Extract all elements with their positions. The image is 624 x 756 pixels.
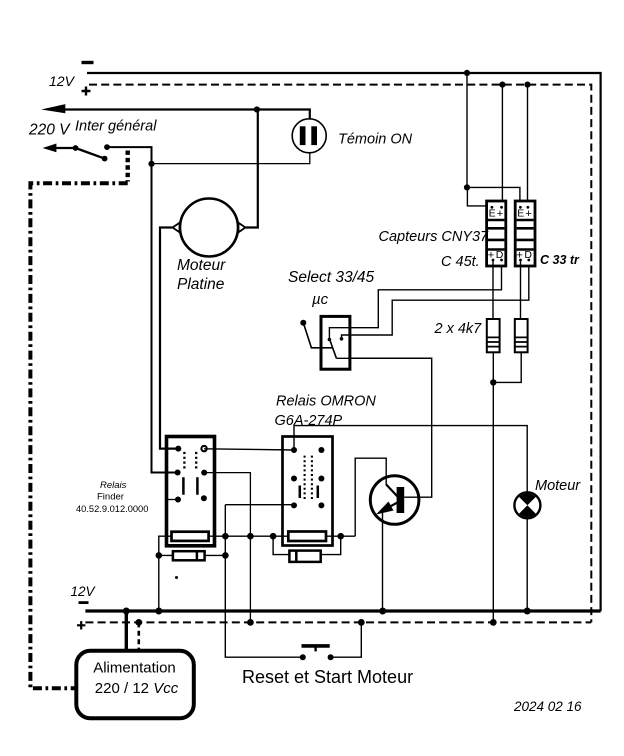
wire transistor emitter to minus bus	[382, 510, 384, 612]
node junction K1 terminal right	[222, 552, 229, 559]
sensor labels	[379, 229, 581, 270]
svg-text:Relais: Relais	[100, 480, 127, 491]
wire relay K2 terminal left lead	[273, 536, 289, 554]
svg-text:12V: 12V	[71, 584, 97, 599]
svg-text:C 45t.: C 45t.	[441, 254, 480, 270]
svg-text:Moteur: Moteur	[535, 478, 581, 494]
relay K2 pins	[291, 447, 324, 508]
sensor U1 CNY37	[487, 201, 506, 266]
wire switch output to relay K1	[107, 147, 178, 472]
svg-text:E: E	[489, 208, 496, 220]
relay K1 coil box	[172, 532, 209, 541]
wire supply plus dashed	[138, 622, 141, 650]
svg-text:Relais OMRON: Relais OMRON	[276, 394, 376, 410]
relay K2 OMRON label	[275, 394, 377, 430]
wire select pole to transistor base	[336, 357, 431, 359]
svg-text:12V: 12V	[49, 73, 76, 89]
wire transistor base to switch	[350, 358, 432, 497]
svg-text:C 33 tr: C 33 tr	[540, 253, 580, 267]
wire 12V minus bus top and right side	[87, 73, 601, 611]
transistor Q1	[370, 476, 419, 525]
wire lamp return thin	[152, 153, 310, 164]
svg-text:2024 02 16: 2024 02 16	[513, 699, 582, 714]
svg-text:40.52.9.012.0000: 40.52.9.012.0000	[76, 504, 148, 514]
lamp Temoin ON	[292, 119, 326, 153]
svg-text:Platine: Platine	[177, 276, 225, 293]
relay K1 label	[76, 480, 148, 514]
node junction plus bus button	[358, 619, 365, 626]
resistor R2	[515, 319, 528, 352]
wire plus to sensor1	[501, 85, 503, 208]
node junction resistors	[490, 379, 496, 385]
relay K1 contact bars	[183, 477, 197, 495]
wire button to plus bus	[331, 622, 362, 657]
wire button feed vertical	[225, 505, 302, 658]
wire relay K2 terminal right lead	[321, 536, 341, 554]
motor M1 label	[177, 257, 226, 293]
stray dot	[175, 576, 178, 579]
svg-text:Inter général: Inter général	[75, 119, 157, 135]
svg-text:E: E	[517, 208, 524, 220]
node junction plus bus K1	[247, 619, 254, 626]
svg-text:+: +	[525, 208, 531, 220]
svg-text:Select 33/45: Select 33/45	[288, 269, 375, 286]
power supply box	[76, 651, 194, 719]
wire relay K1 terminal leads	[159, 554, 226, 556]
node junction minus bus emitter	[379, 608, 386, 615]
button Reset	[300, 646, 334, 660]
svg-text:Capteurs CNY37: Capteurs CNY37	[379, 229, 490, 245]
wire plus to sensor2	[527, 85, 529, 208]
node junction K1 left	[156, 552, 163, 559]
svg-text:+: +	[497, 208, 503, 220]
node junction plus bus supply	[135, 619, 142, 626]
switch Select 33/45	[300, 316, 350, 369]
resistor R1	[487, 319, 500, 352]
wire relay K1 coil left lead	[159, 536, 172, 555]
wire motor feed vertical	[245, 110, 257, 228]
wire 12V plus bus top dashed and right side dashed	[89, 85, 591, 623]
svg-text:Alimentation: Alimentation	[93, 660, 176, 677]
svg-text:2 x 4k7: 2 x 4k7	[434, 321, 483, 337]
wire to sensor2 E	[467, 187, 520, 208]
node 12V bottom label	[71, 584, 97, 630]
node junction motor feed	[254, 106, 260, 112]
wire resistor R2 down join	[493, 352, 521, 382]
wire sensor2 D to resistor R2	[520, 260, 522, 319]
relay K1 pins	[175, 446, 208, 503]
switch Inter general	[43, 144, 110, 162]
wire relay K1 bottom-left pin lead	[166, 499, 178, 501]
wire sensor1 D to resistor R1	[492, 260, 494, 319]
node junction plus bus sensor2	[524, 82, 530, 88]
svg-text:220 / 12 Vcc: 220 / 12 Vcc	[95, 680, 179, 697]
node junction minus bus supply	[123, 608, 130, 615]
node junction plus bus sensor1	[499, 82, 505, 88]
node junction coil bus A	[222, 533, 229, 540]
svg-text:G6A-274P: G6A-274P	[275, 413, 343, 429]
node 12V top label	[49, 63, 94, 96]
relay K1 Finder outline	[167, 437, 215, 546]
node junction sensor feed top	[464, 70, 470, 76]
wire transistor collector to coil bus	[355, 458, 386, 536]
wire coil bus	[209, 535, 356, 537]
wire K1 left down to minus bus	[158, 555, 160, 611]
svg-text:Finder: Finder	[97, 492, 124, 503]
node junction coil bus B	[247, 533, 254, 540]
wire relay K2 top pin to motor lamp	[294, 426, 527, 493]
svg-text:Moteur: Moteur	[177, 257, 226, 274]
wire select to sensor1 D	[329, 261, 501, 340]
svg-text:Reset et Start Moteur: Reset et Start Moteur	[242, 667, 413, 687]
relay K2 terminal box	[289, 551, 320, 562]
wire relay K1 to relay K2 top	[204, 449, 294, 450]
wire resistor R1 down to plus bus	[492, 352, 494, 622]
wire sensor E feed	[466, 73, 468, 187]
wire supply minus	[125, 611, 128, 651]
wire relay K2 bottom-left pin	[225, 504, 294, 506]
wire 220V dashed drop	[125, 151, 129, 182]
svg-text:Témoin ON: Témoin ON	[338, 132, 413, 148]
wire motor left to relay K1 top pin	[160, 228, 178, 449]
wire relay K1 mid-right pin down	[204, 473, 250, 623]
motor M1 Moteur Platine	[173, 199, 246, 257]
node junction coil bus D	[337, 533, 344, 540]
relay K2 OMRON outline	[283, 437, 333, 546]
wire lamp to minus bus	[526, 518, 528, 611]
wire plus bus bottom dashed	[85, 621, 591, 623]
wire 220V feed arrow line	[41, 104, 310, 119]
node junction coil bus C	[270, 533, 277, 540]
switch Select label	[288, 269, 375, 308]
svg-text:µc: µc	[312, 291, 329, 308]
relay K1 coil dotted	[184, 452, 196, 469]
relay K2 coil box	[288, 532, 326, 542]
relay K1 terminal box	[173, 551, 205, 560]
node junction minus bus lamp	[524, 608, 531, 615]
node junction plus bus sensors	[490, 619, 497, 626]
relay K2 coil dotted	[305, 456, 312, 500]
wire minus bus bottom	[85, 609, 600, 612]
relay K2 contact bars	[300, 486, 318, 499]
node junction lamp branch	[148, 161, 154, 167]
wire to sensor1 E	[467, 187, 492, 208]
wire select to sensor2 D	[342, 261, 529, 339]
wire 220V dash-dot to supply	[30, 183, 127, 688]
sensor U2 CNY37	[515, 201, 535, 266]
node junction sensor E split	[464, 184, 470, 190]
lamp motor indicator	[514, 492, 540, 518]
node junction minus bus K1	[155, 608, 162, 615]
svg-text:220 V: 220 V	[28, 122, 71, 139]
